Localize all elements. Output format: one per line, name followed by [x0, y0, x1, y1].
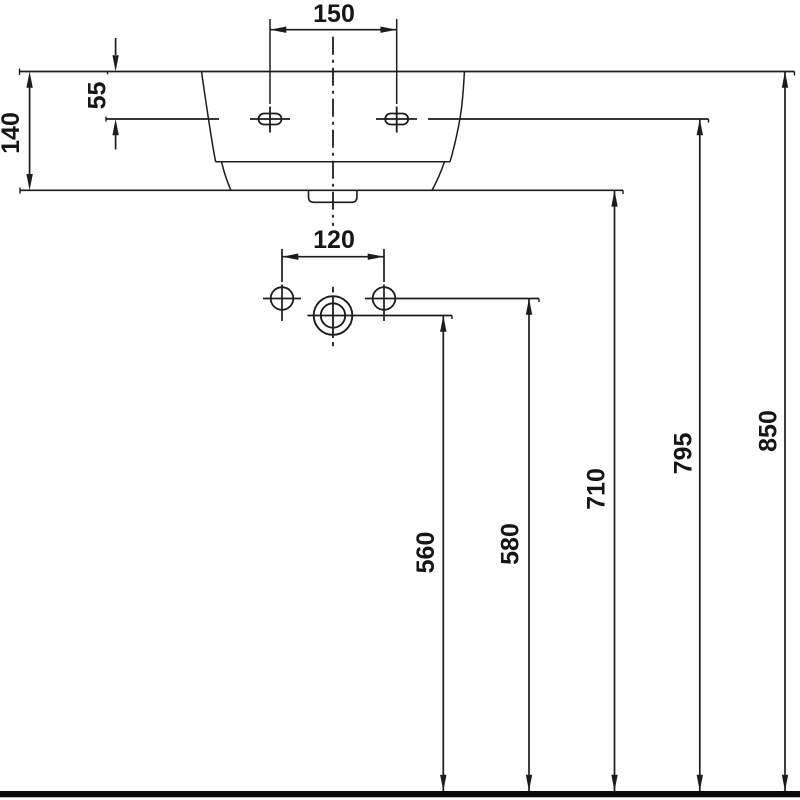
mounting hole left obround — [259, 114, 282, 125]
svg-text:55: 55 — [84, 82, 112, 110]
dim 580 vertical line — [528, 299, 530, 792]
mounting hole level line segment left — [106, 118, 219, 120]
dim 120 arrow right — [368, 254, 384, 260]
svg-text:150: 150 — [313, 0, 355, 28]
dim 150 arrow left — [270, 27, 286, 33]
basin outline right upper profile — [450, 72, 464, 162]
svg-text:580: 580 — [497, 523, 525, 565]
mounting hole right crosshair vertical — [396, 107, 398, 133]
dim 560 arrow top — [440, 316, 446, 332]
faucet hole right circle — [373, 287, 396, 310]
faucet hole left circle — [271, 287, 294, 310]
dim 580 arrow bottom — [526, 775, 532, 791]
svg-text:140: 140 — [0, 112, 25, 154]
svg-text:850: 850 — [755, 410, 783, 452]
svg-text:560: 560 — [412, 532, 440, 574]
dim 795 arrow top — [697, 119, 703, 135]
svg-text:120: 120 — [313, 226, 355, 254]
witness tick near 55 dimension — [107, 72, 109, 75]
svg-text:795: 795 — [670, 433, 698, 475]
dim 150 arrow right — [380, 27, 396, 33]
dim 55 upper extension with arrow — [115, 38, 117, 55]
dim 120 arrow left — [282, 254, 298, 260]
dim 850 vertical line — [784, 72, 786, 792]
dim 55 arrow up (lower) — [112, 119, 118, 135]
line from spout hole to dim 560 — [307, 315, 452, 317]
dim 120 extension line left / faucet hole left vertical crosshair — [281, 249, 283, 321]
dim 150 extension line right — [396, 19, 398, 104]
dim 795 arrow bottom — [697, 775, 703, 791]
mounting hole right crosshair horizontal — [376, 118, 417, 120]
basin outline left upper profile — [202, 72, 216, 162]
mounting hole level line segment right — [428, 118, 709, 120]
dim 55 arrow down (upper) — [112, 55, 118, 71]
wall top reference line — [20, 71, 795, 73]
spout hole outer circle — [314, 296, 353, 335]
dim 710 arrow bottom — [611, 775, 617, 791]
dim 150 extension line left — [269, 19, 271, 104]
mounting hole left crosshair horizontal — [250, 118, 290, 120]
dim 710 arrow top — [611, 190, 617, 206]
dim 560 arrow bottom — [440, 775, 446, 791]
mounting hole left crosshair vertical — [269, 107, 271, 133]
dim 55 lower extension with arrow — [115, 135, 117, 150]
dim 580 arrow top — [526, 299, 532, 315]
line from faucet hole right to dim 580 — [365, 298, 539, 300]
dim 120 dimension line — [282, 256, 384, 258]
dim 120 extension line right / faucet hole right vertical crosshair — [383, 249, 385, 321]
dim 150 dimension line — [270, 29, 397, 31]
dim 140 dimension line — [29, 87, 31, 174]
basin outline lower left profile — [222, 162, 232, 191]
main vertical centerline — [332, 37, 334, 226]
dim 850 arrow bottom — [782, 775, 788, 791]
floor line — [0, 791, 800, 797]
dim 710 vertical line — [614, 190, 616, 791]
dim 850 arrow top — [782, 72, 788, 88]
spout hole inner circle — [321, 303, 345, 327]
faucet hole left horizontal crosshair — [263, 298, 301, 300]
svg-text:710: 710 — [583, 468, 611, 510]
dim 560 vertical line — [442, 316, 444, 792]
drain cover — [309, 190, 357, 202]
dim 795 vertical line — [699, 119, 701, 791]
basin bottom reference line — [20, 189, 623, 191]
basin outline lower right profile — [432, 162, 445, 191]
spout hole vertical crosshair — [332, 287, 334, 347]
basin shelf line — [216, 161, 450, 163]
dim 140 arrow up — [26, 72, 32, 88]
mounting hole right obround — [385, 114, 408, 125]
dim 140 arrow down — [26, 174, 32, 190]
